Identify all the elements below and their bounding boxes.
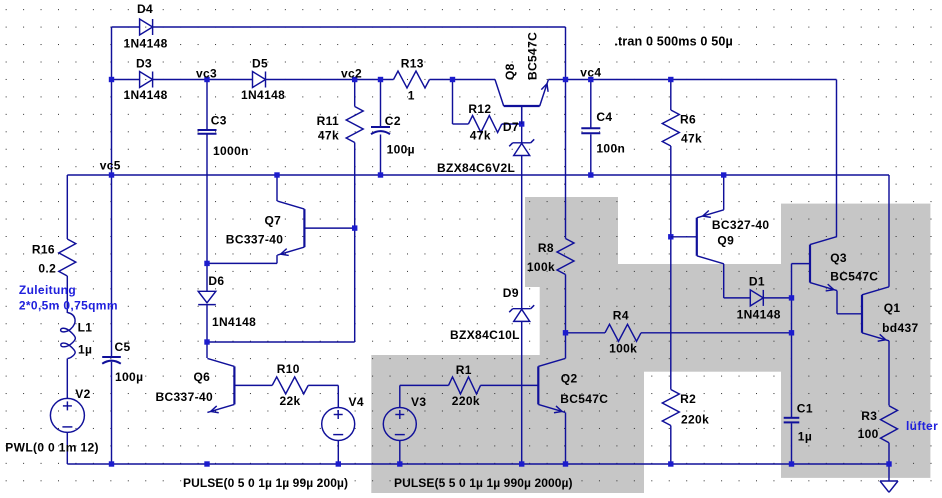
junction [109, 461, 114, 466]
wire [153, 79, 253, 81]
diode D4 [140, 19, 153, 35]
wire [206, 305, 208, 342]
wire [337, 385, 339, 407]
capacitor C1 [784, 417, 800, 419]
wire [565, 275, 567, 333]
svg-text:1N4148: 1N4148 [212, 315, 256, 329]
svg-text:D9: D9 [503, 286, 519, 300]
wire [112, 79, 140, 81]
svg-text:220k: 220k [452, 394, 480, 408]
resistor R3 [881, 406, 898, 443]
svg-text:Q9: Q9 [717, 233, 734, 247]
svg-text:.tran 0 500ms 0 50µ: .tran 0 500ms 0 50µ [614, 35, 733, 49]
resistor R10 [272, 377, 308, 394]
svg-text:47k: 47k [681, 131, 702, 145]
svg-text:vc4: vc4 [580, 66, 601, 80]
junction [789, 461, 794, 466]
junction Q8 base [519, 121, 524, 126]
wire [207, 341, 355, 343]
selection highlight region (center upper) [525, 197, 618, 287]
svg-text:BC547C: BC547C [560, 392, 608, 406]
voltage source V3 [383, 408, 416, 441]
svg-text:R10: R10 [277, 362, 300, 376]
svg-text:R1: R1 [456, 363, 472, 377]
svg-text:vc2: vc2 [341, 67, 362, 81]
wire [671, 236, 697, 238]
svg-text:1N4148: 1N4148 [241, 88, 285, 102]
wire [836, 291, 838, 314]
svg-text:D3: D3 [136, 57, 152, 71]
junction [274, 172, 279, 177]
wire [67, 174, 889, 176]
wire [723, 175, 725, 210]
svg-text:V2: V2 [75, 387, 90, 401]
diode D1 [750, 290, 763, 306]
wire [66, 276, 68, 313]
inductor L1 [61, 313, 76, 359]
transistor Q7 [303, 209, 305, 247]
svg-text:D7: D7 [503, 120, 519, 134]
svg-text:Zuleitung: Zuleitung [19, 283, 76, 297]
junction [886, 461, 891, 466]
junction Q7 base [352, 225, 357, 230]
wire [763, 297, 791, 299]
junction C4 top [588, 77, 593, 82]
svg-text:Q6: Q6 [194, 370, 211, 384]
selection highlight region (center tall) [540, 286, 644, 493]
junction R4/C1 [789, 330, 794, 335]
wire [791, 423, 793, 464]
svg-text:D1: D1 [749, 274, 765, 288]
wire [337, 441, 339, 465]
wire [430, 79, 496, 81]
svg-text:100k: 100k [527, 260, 555, 274]
svg-text:V3: V3 [411, 395, 426, 409]
wire [548, 79, 836, 81]
svg-text:Q7: Q7 [265, 213, 282, 227]
svg-text:R11: R11 [317, 114, 339, 128]
resistor R11 [346, 107, 363, 143]
junction R6 top [668, 77, 673, 82]
junction Q7 emitter [204, 261, 209, 266]
wire [590, 134, 592, 175]
svg-text:100µ: 100µ [387, 143, 415, 157]
wire [206, 263, 208, 291]
wire [66, 432, 68, 464]
wire [565, 80, 567, 239]
wire [354, 143, 356, 343]
resistor R13 [394, 71, 430, 88]
wire [670, 146, 672, 237]
svg-text:BZX84C10L: BZX84C10L [450, 328, 520, 342]
junction [563, 461, 568, 466]
wire [276, 175, 278, 201]
svg-text:R8: R8 [538, 241, 554, 255]
junction C4 bottom [588, 172, 593, 177]
junction vc3 [204, 77, 209, 82]
svg-text:bd437: bd437 [882, 321, 918, 335]
wire [837, 313, 862, 315]
svg-text:Q3: Q3 [830, 251, 847, 265]
wire [791, 298, 793, 418]
svg-text:PULSE(5 5 0 1µ 1µ 990µ 2000µ): PULSE(5 5 0 1µ 1µ 990µ 2000µ) [394, 476, 573, 490]
svg-text:C2: C2 [385, 114, 401, 128]
svg-text:1000n: 1000n [213, 144, 249, 158]
junction [721, 172, 726, 177]
svg-text:C3: C3 [211, 114, 227, 128]
ground [880, 480, 898, 482]
wire [111, 27, 113, 357]
wire [206, 134, 208, 263]
junction [450, 77, 455, 82]
svg-text:1: 1 [408, 88, 415, 102]
svg-text:PULSE(0 5 0 1µ 1µ 99µ 200µ): PULSE(0 5 0 1µ 1µ 99µ 200µ) [183, 476, 348, 490]
wire [452, 80, 454, 125]
svg-text:BC547C: BC547C [526, 32, 540, 80]
wire [566, 332, 606, 334]
wire [521, 321, 523, 464]
capacitor C2 [371, 126, 390, 128]
svg-text:BC337-40: BC337-40 [156, 390, 214, 404]
wire [670, 237, 672, 390]
wire [207, 262, 277, 264]
svg-text:47k: 47k [470, 128, 491, 142]
wire [453, 123, 469, 125]
svg-text:BC337-40: BC337-40 [226, 233, 283, 247]
wire [888, 341, 890, 406]
wire [400, 384, 449, 386]
capacitor C4 [581, 127, 600, 129]
svg-text:100n: 100n [596, 141, 625, 155]
svg-text:Q1: Q1 [884, 301, 901, 315]
transistor Q8 [504, 105, 540, 107]
wire [565, 333, 567, 359]
wire [521, 124, 523, 143]
capacitor C5 [102, 356, 121, 358]
wire [888, 464, 890, 481]
wire [206, 342, 208, 358]
wire [836, 80, 838, 237]
junction D6/Q6 [204, 339, 209, 344]
svg-text:PWL(0 0 1m 12): PWL(0 0 1m 12) [5, 440, 99, 454]
svg-text:Q2: Q2 [561, 372, 578, 386]
svg-text:R16: R16 [32, 243, 55, 257]
svg-text:R6: R6 [680, 113, 696, 127]
svg-text:R3: R3 [861, 409, 877, 423]
junction C2 top [378, 77, 383, 82]
svg-text:220k: 220k [681, 413, 709, 427]
wire [670, 426, 672, 465]
svg-text:1µ: 1µ [798, 430, 812, 444]
wire [206, 80, 208, 131]
wire [565, 413, 567, 465]
svg-text:2*0,5m 0,75qmm: 2*0,5m 0,75qmm [19, 299, 118, 313]
resistor R1 [449, 377, 481, 394]
wire [521, 156, 523, 309]
selection highlight region (bottom center) [371, 355, 644, 493]
junction [397, 461, 402, 466]
wire [67, 463, 889, 465]
wire [723, 264, 725, 298]
junction [204, 461, 209, 466]
svg-text:R13: R13 [401, 57, 424, 71]
wire [399, 385, 401, 407]
junction [336, 461, 341, 466]
wire [888, 443, 890, 464]
diode D6 [198, 291, 216, 303]
wire [724, 297, 751, 299]
selection highlight region (right block) [781, 204, 930, 478]
wire [234, 384, 272, 386]
wire [66, 175, 68, 239]
selection highlight region (middle right) [618, 264, 781, 372]
wire [590, 80, 592, 129]
svg-text:lüfter: lüfter [906, 419, 938, 433]
wire [565, 27, 567, 80]
svg-text:V4: V4 [349, 395, 364, 409]
svg-text:BZX84C6V2L: BZX84C6V2L [437, 161, 515, 175]
svg-text:C4: C4 [596, 110, 612, 124]
wire [480, 384, 538, 386]
junction [668, 461, 673, 466]
diode D5 [253, 72, 266, 88]
wire [380, 135, 382, 176]
wire [670, 80, 672, 111]
svg-text:C5: C5 [115, 340, 131, 354]
resistor R4 [605, 324, 641, 341]
transistor Q2 [537, 366, 539, 404]
resistor R6 [662, 110, 679, 146]
transistor Q6 [233, 366, 235, 404]
wire [66, 359, 68, 399]
svg-text:D6: D6 [208, 274, 224, 288]
wire [266, 79, 394, 81]
resistor R8 [557, 239, 574, 275]
junction D1/Q3 [789, 295, 794, 300]
svg-text:100µ: 100µ [115, 370, 143, 384]
resistor R2 [662, 390, 679, 426]
zener diode D9 [513, 308, 531, 310]
wire [888, 175, 890, 287]
voltage source V2 [50, 398, 84, 432]
svg-text:1µ: 1µ [78, 343, 92, 357]
svg-text:L1: L1 [78, 320, 93, 334]
svg-text:47k: 47k [318, 128, 339, 142]
wire [521, 106, 523, 124]
wire [791, 264, 793, 298]
junction [109, 77, 114, 82]
transistor Q9 [696, 218, 698, 256]
wire [380, 80, 382, 128]
wire [502, 123, 522, 125]
wire [304, 227, 354, 229]
junction vc4 [563, 77, 568, 82]
junction vc5 [109, 172, 114, 177]
svg-text:1N4148: 1N4148 [124, 37, 168, 51]
svg-text:22k: 22k [280, 394, 301, 408]
junction [519, 461, 524, 466]
svg-text:100k: 100k [609, 342, 637, 356]
wire [111, 362, 113, 464]
transistor Q1 [861, 295, 863, 333]
junction vc2 [352, 77, 357, 82]
svg-text:1N4148: 1N4148 [124, 88, 168, 102]
wire [276, 255, 278, 263]
svg-text:R2: R2 [680, 392, 696, 406]
resistor R16 [59, 239, 76, 276]
resistor R12 [468, 116, 501, 133]
svg-text:vc3: vc3 [196, 67, 217, 81]
svg-text:Q8: Q8 [503, 63, 517, 80]
svg-text:vc5: vc5 [100, 159, 121, 173]
svg-text:BC547C: BC547C [830, 269, 878, 283]
svg-text:R4: R4 [613, 309, 629, 323]
diode D3 [140, 72, 153, 88]
junction Q9 base [668, 234, 673, 239]
capacitor C3 [198, 129, 217, 131]
svg-text:1N4148: 1N4148 [737, 307, 781, 321]
wire [153, 26, 566, 28]
svg-text:100: 100 [858, 427, 879, 441]
wire [308, 384, 338, 386]
wire [792, 263, 811, 265]
svg-text:0.2: 0.2 [38, 261, 56, 275]
svg-text:BC327-40: BC327-40 [712, 218, 770, 232]
wire [399, 441, 401, 465]
voltage source V4 [322, 408, 355, 441]
svg-text:C1: C1 [797, 402, 813, 416]
svg-text:R12: R12 [468, 102, 491, 116]
svg-text:D4: D4 [137, 2, 153, 16]
svg-text:D5: D5 [252, 57, 268, 71]
junction C2 bottom [378, 172, 383, 177]
wire [354, 80, 356, 107]
zener diode D7 [513, 142, 531, 144]
wire [641, 332, 792, 334]
transistor Q3 [809, 245, 811, 283]
wire [112, 26, 140, 28]
junction R8/R4 [563, 330, 568, 335]
